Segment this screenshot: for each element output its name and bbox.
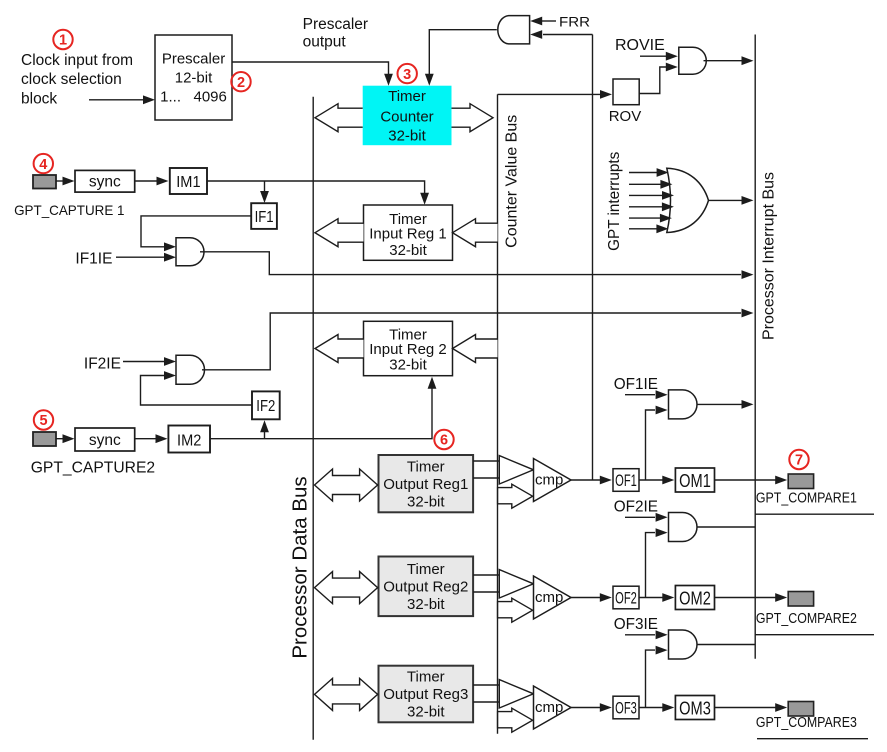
svg-text:Timer: Timer [407,669,445,686]
svg-text:OF2: OF2 [615,590,637,608]
svg-text:2: 2 [237,75,245,91]
svg-text:ROVIE: ROVIE [615,37,665,54]
svg-text:output: output [303,33,347,50]
svg-text:4: 4 [39,157,47,173]
svg-text:block: block [21,90,57,107]
svg-text:OF3IE: OF3IE [614,616,658,633]
svg-text:32-bit: 32-bit [389,356,427,373]
svg-text:Processor Data Bus: Processor Data Bus [289,476,312,658]
svg-text:Clock input from: Clock input from [21,52,133,69]
svg-text:Output Reg1: Output Reg1 [383,476,468,493]
svg-text:Timer: Timer [407,458,445,475]
svg-text:OF1IE: OF1IE [614,376,658,393]
svg-text:32-bit: 32-bit [407,493,445,510]
svg-text:OM2: OM2 [679,587,711,608]
svg-text:Input Reg 1: Input Reg 1 [369,226,447,243]
svg-text:Prescaler: Prescaler [162,50,225,67]
svg-text:ROV: ROV [609,108,642,125]
svg-text:Output Reg3: Output Reg3 [383,686,468,703]
svg-text:IM2: IM2 [177,432,201,449]
svg-text:1... 4096: 1... 4096 [160,89,227,106]
svg-text:clock selection: clock selection [21,71,122,88]
svg-text:Timer: Timer [388,88,426,105]
svg-text:GPT_COMPARE2: GPT_COMPARE2 [756,611,857,627]
svg-text:cmp: cmp [535,589,563,606]
svg-text:sync: sync [89,432,121,449]
svg-text:Prescaler: Prescaler [303,16,368,33]
svg-text:GPT_COMPARE1: GPT_COMPARE1 [756,490,857,506]
svg-text:IF1: IF1 [255,209,274,226]
svg-text:32-bit: 32-bit [407,704,445,721]
svg-text:Counter Value Bus: Counter Value Bus [504,115,521,248]
svg-text:Processor Interrupt Bus: Processor Interrupt Bus [761,172,778,340]
svg-text:32-bit: 32-bit [407,596,445,613]
svg-text:5: 5 [39,413,47,429]
svg-text:1: 1 [59,33,67,49]
svg-text:IM1: IM1 [176,174,200,191]
svg-text:sync: sync [89,174,121,191]
svg-text:Timer: Timer [407,561,445,578]
svg-text:OF3: OF3 [615,700,637,718]
svg-text:IF1IE: IF1IE [75,250,112,267]
svg-text:FRR: FRR [559,14,590,29]
svg-text:GPT interrupts: GPT interrupts [606,151,623,251]
svg-text:GPT_CAPTURE2: GPT_CAPTURE2 [31,460,155,477]
svg-text:cmp: cmp [535,699,563,716]
svg-text:GPT_CAPTURE 1: GPT_CAPTURE 1 [14,202,125,218]
svg-text:OM1: OM1 [679,470,711,491]
svg-text:cmp: cmp [535,471,563,488]
svg-text:12-bit: 12-bit [175,70,213,87]
svg-text:OM3: OM3 [679,697,711,718]
svg-text:GPT_COMPARE3: GPT_COMPARE3 [756,715,857,731]
svg-text:32-bit: 32-bit [389,242,427,259]
svg-text:Counter: Counter [380,109,433,126]
svg-text:Output Reg2: Output Reg2 [383,579,468,596]
svg-text:32-bit: 32-bit [388,128,426,145]
svg-text:IF2: IF2 [256,398,275,415]
svg-text:OF2IE: OF2IE [614,498,658,515]
svg-text:6: 6 [440,433,448,449]
svg-text:7: 7 [795,453,803,469]
svg-text:3: 3 [403,67,411,83]
svg-text:IF2IE: IF2IE [84,355,121,372]
svg-text:OF1: OF1 [615,472,637,490]
svg-text:Input Reg 2: Input Reg 2 [369,341,447,358]
